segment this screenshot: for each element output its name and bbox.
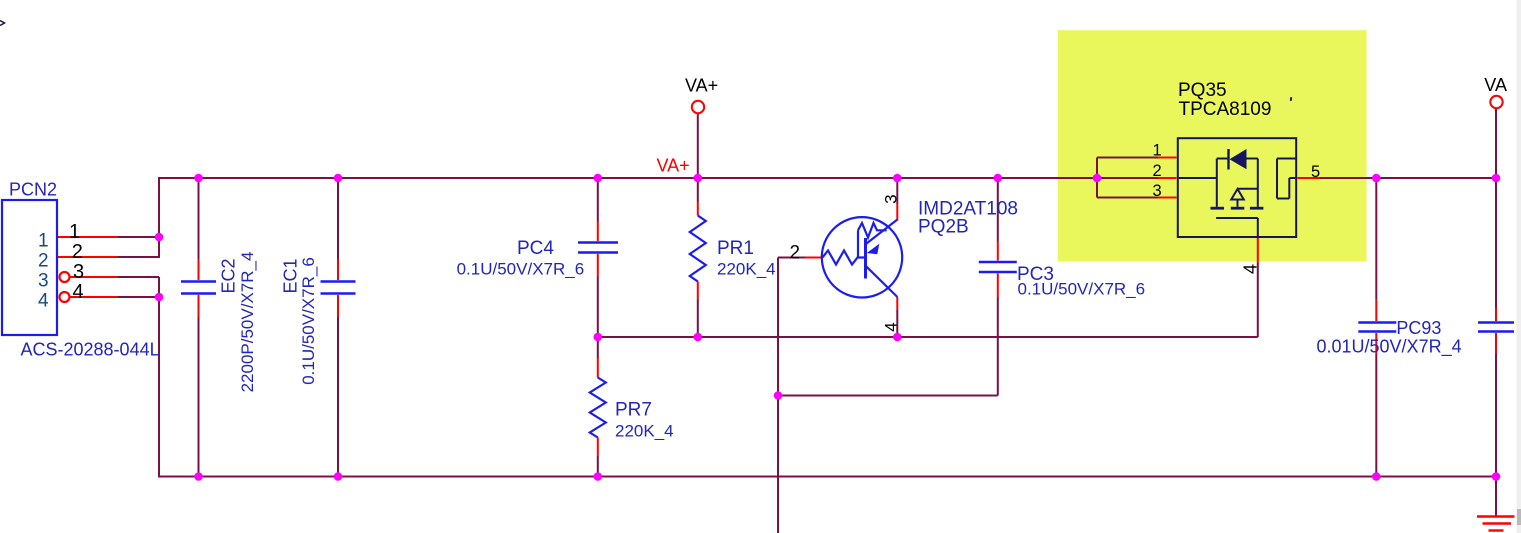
svg-text:3: 3 [882,194,901,203]
svg-text:2: 2 [38,251,49,272]
svg-text:2: 2 [1153,162,1162,180]
svg-text:0.1U/50V/X7R_6: 0.1U/50V/X7R_6 [1018,280,1146,299]
svg-text:0.01U/50V/X7R_4: 0.01U/50V/X7R_4 [1317,337,1462,358]
svg-text:2: 2 [72,241,83,263]
svg-text:220K_4: 220K_4 [615,422,674,441]
svg-text:PR7: PR7 [615,400,652,421]
svg-text:PQ2B: PQ2B [918,217,969,238]
svg-text:EC1: EC1 [281,258,301,293]
svg-text:EC2: EC2 [219,258,239,293]
svg-text:PC4: PC4 [517,238,554,259]
svg-text:VA+: VA+ [657,156,690,176]
svg-text:3: 3 [1153,182,1162,200]
svg-text:PR1: PR1 [717,238,754,259]
svg-text:2200P/50V/X7R_4: 2200P/50V/X7R_4 [238,252,257,393]
svg-text:VA+: VA+ [685,76,718,96]
svg-text:4: 4 [38,291,49,312]
svg-text:1: 1 [69,221,80,243]
svg-text:4: 4 [73,281,84,303]
svg-text:PQ35: PQ35 [1178,80,1227,101]
svg-text:PC93: PC93 [1396,318,1441,338]
svg-text:TPCA8109: TPCA8109 [1179,99,1272,120]
svg-text:4: 4 [882,322,901,331]
svg-text:220K_4: 220K_4 [717,260,776,279]
svg-text:1: 1 [38,231,49,252]
svg-text:0.1U/50V/X7R_6: 0.1U/50V/X7R_6 [457,260,585,279]
svg-text:3: 3 [73,261,84,283]
svg-text:3: 3 [38,271,49,292]
svg-text:ACS-20288-044L: ACS-20288-044L [21,340,160,360]
svg-text:PCN2: PCN2 [9,180,57,200]
svg-text:2: 2 [790,243,801,264]
svg-text:4: 4 [1240,264,1260,274]
svg-text:0.1U/50V/X7R_6: 0.1U/50V/X7R_6 [299,257,318,385]
svg-text:1: 1 [1153,142,1162,160]
svg-text:5: 5 [1311,163,1320,181]
svg-text:VA: VA [1484,75,1507,95]
